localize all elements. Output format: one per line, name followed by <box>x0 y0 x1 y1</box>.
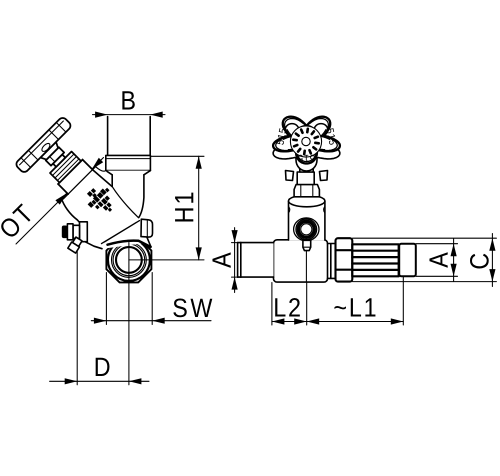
handwheel outer face <box>273 117 340 164</box>
flange joint line at bonnet base <box>63 167 95 199</box>
label SW <box>173 298 212 317</box>
right shoulder edge into socket <box>96 167 106 171</box>
arrow A-left top <box>232 230 238 243</box>
arrow SW left <box>94 318 107 324</box>
packing hex nut (right view) <box>294 185 319 197</box>
label A right (rotated) <box>429 252 447 267</box>
label C (rotated) <box>470 254 489 269</box>
bonnet right edge extension into crotch <box>92 169 112 186</box>
handwheel rim mid arcs <box>276 119 338 162</box>
arrow L2 right <box>294 318 307 324</box>
union nut (right view) <box>336 238 353 281</box>
label ~L1 <box>334 298 375 316</box>
hub <box>40 142 60 162</box>
port boss (left view right side) <box>141 219 153 237</box>
end cap fitting <box>399 244 416 277</box>
arrow OT lower <box>55 193 66 204</box>
bonnet + handwheel 45deg stack (left view) <box>15 116 105 206</box>
arrow OT upper <box>92 158 103 169</box>
dim D <box>50 380 149 382</box>
inlet pipe (right view, left) <box>238 243 274 278</box>
valve body (left view) fill <box>62 167 153 249</box>
bonnet (right view) <box>289 195 325 240</box>
arrow C top <box>489 238 495 251</box>
dim B <box>93 114 166 116</box>
inlet pipe B (left view top) <box>108 117 151 156</box>
valve body (right view) <box>274 240 328 282</box>
union nut octagon (left view bottom) <box>106 237 151 282</box>
top arch (far rim through valley) <box>298 126 315 131</box>
dim OT leader lines <box>16 194 66 244</box>
arrow L2 left <box>272 318 285 324</box>
bonnet cylinder <box>58 160 93 195</box>
drain valve (left view left side) <box>62 222 88 253</box>
515 stamps on lobes <box>276 128 336 162</box>
arrow A-left bottom <box>232 277 238 290</box>
port ring boss (right view) <box>294 218 319 241</box>
arrow B left <box>95 112 108 118</box>
label H1 (rotated) <box>175 193 193 222</box>
label OT (rotated 45) <box>0 203 35 240</box>
label D <box>96 358 110 376</box>
dim H1 <box>150 155 204 157</box>
heavy flange arc above nut <box>108 241 151 247</box>
stem <box>53 154 65 166</box>
arrow B right <box>150 112 163 118</box>
threaded tailpiece ribs <box>352 244 398 276</box>
arrow A-right top <box>451 244 457 257</box>
spoke holes upper lobes <box>285 124 299 136</box>
socket band <box>106 155 151 170</box>
arrow H1 bottom <box>196 247 202 260</box>
nub under port <box>303 240 311 250</box>
handwheel underside (3d thickness, lower half) <box>273 149 340 171</box>
arrow SW right <box>152 318 165 324</box>
crotch fillet curve <box>112 187 138 218</box>
arrow D left <box>65 378 78 384</box>
dim SW <box>91 320 211 322</box>
dim A left <box>234 228 236 293</box>
handwheel valley inner arcs <box>283 130 329 155</box>
wheel side feet <box>286 171 294 181</box>
hub disc with knurl ticks <box>290 126 321 157</box>
label A left (rotated) <box>212 252 230 267</box>
dim L2 L1 <box>272 321 403 323</box>
centerline through body <box>305 251 307 282</box>
dim C <box>353 237 497 239</box>
body lower-right edge to nut <box>147 237 151 247</box>
neck below socket <box>106 171 151 218</box>
arrow D right <box>129 378 142 384</box>
arrow L1 right <box>391 318 404 324</box>
arrow H1 top <box>196 156 202 169</box>
arrow C bottom <box>489 269 495 282</box>
body lower-left slope into nut <box>85 242 102 249</box>
logo stamp on body <box>82 181 121 220</box>
gland rings section <box>50 152 81 183</box>
pipe sliver right of body <box>328 244 336 279</box>
stem collar <box>300 164 313 173</box>
arrow L1 left <box>307 318 320 324</box>
arrow A-right bottom <box>451 264 457 277</box>
label B <box>122 91 134 109</box>
seat ridge 45deg interior double line <box>102 221 140 244</box>
dim A right <box>416 243 458 245</box>
handwheel bar <box>15 116 73 174</box>
label L2 <box>275 298 300 317</box>
body left edge <box>62 194 80 223</box>
wheel nut <box>46 147 64 165</box>
stem (right view) <box>297 172 314 185</box>
